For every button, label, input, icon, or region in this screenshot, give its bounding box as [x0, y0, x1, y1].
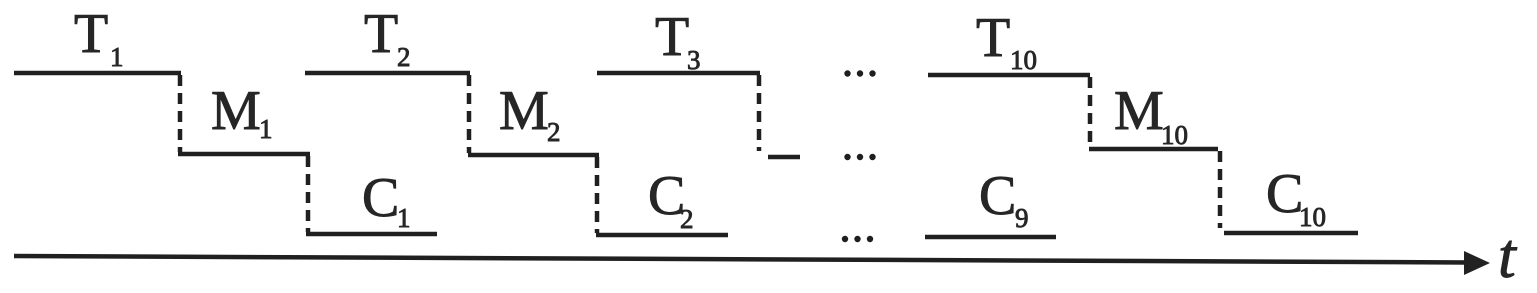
wire M10 segment: [1089, 147, 1218, 152]
wire T10 segment: [928, 73, 1090, 78]
svg-text:C: C: [979, 165, 1016, 227]
wire C2 segment: [596, 233, 728, 238]
svg-text:M: M: [499, 80, 549, 142]
label T10: [976, 7, 1037, 75]
svg-text:10: 10: [1161, 120, 1188, 150]
svg-text:2: 2: [397, 42, 411, 72]
wire dashed drop T2-M2: [467, 75, 472, 153]
wire C10 segment: [1224, 231, 1358, 236]
svg-text:C: C: [1266, 163, 1303, 225]
label M10: [1114, 80, 1188, 150]
svg-text:2: 2: [547, 117, 561, 147]
wire dashed drop M10-C10: [1218, 151, 1223, 228]
wire T3 segment: [597, 71, 760, 76]
label M1: [211, 80, 273, 144]
svg-text:T: T: [976, 7, 1010, 69]
wire M2 segment: [468, 153, 599, 158]
wire dashed drop M2-C2: [595, 157, 600, 233]
wire dashed drop T10-M10: [1088, 77, 1093, 146]
label C10: [1266, 163, 1326, 232]
ellipsis dots top row: [844, 70, 875, 76]
wire dashed drop M1-C1: [306, 156, 311, 232]
svg-text:10: 10: [1299, 202, 1326, 232]
label C1: [362, 167, 411, 233]
wire T2 segment: [305, 71, 470, 76]
ellipsis dots middle row: [844, 154, 875, 160]
time axis line: [14, 256, 1468, 263]
svg-text:9: 9: [1015, 203, 1029, 233]
label C9: [979, 165, 1029, 233]
label T2: [364, 3, 411, 72]
svg-text:2: 2: [680, 204, 694, 234]
svg-text:C: C: [362, 167, 399, 229]
wire T1 segment: [14, 71, 181, 76]
wire C9 segment: [925, 235, 1056, 240]
wire C1 segment: [306, 232, 437, 237]
svg-text:1: 1: [259, 114, 273, 144]
wire M3 partial segment: [768, 155, 800, 160]
time axis arrowhead: [1464, 251, 1490, 275]
ellipsis dots bottom row: [842, 236, 873, 242]
svg-text:t: t: [1498, 220, 1518, 288]
svg-text:1: 1: [110, 42, 124, 72]
wire M1 segment: [178, 152, 310, 157]
svg-text:T: T: [364, 3, 398, 65]
label M2: [499, 80, 561, 147]
svg-text:T: T: [655, 6, 689, 68]
label T3: [655, 6, 701, 75]
svg-text:1: 1: [397, 203, 411, 233]
svg-text:M: M: [211, 80, 261, 142]
label T1: [74, 3, 124, 72]
svg-text:T: T: [74, 3, 108, 65]
svg-text:M: M: [1114, 80, 1164, 142]
svg-text:10: 10: [1010, 45, 1037, 75]
svg-text:3: 3: [687, 45, 701, 75]
label C2: [648, 165, 694, 234]
wire dashed drop T3-M3: [757, 75, 762, 151]
wire dashed drop T1-M1: [178, 75, 183, 152]
